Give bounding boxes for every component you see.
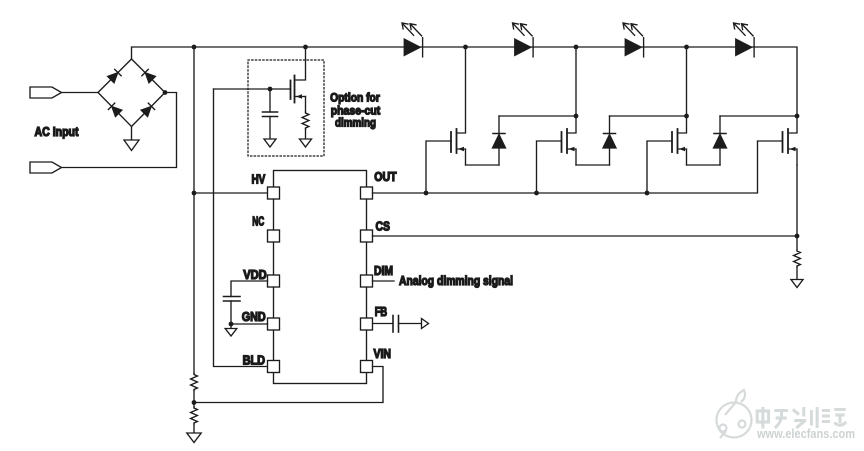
wire: phase-cut FET source bbox=[305, 97, 307, 113]
wire: M1 gate branch bbox=[426, 141, 451, 193]
AC input terminal (neutral) bbox=[30, 162, 62, 173]
resistor: current sense bbox=[794, 250, 801, 267]
watermark: elecfans logo bbox=[717, 390, 752, 438]
ground: bridge negative bbox=[124, 127, 139, 151]
LED LED4 bbox=[734, 23, 755, 57]
wire: resistor to ground bbox=[305, 129, 307, 139]
bridge diode top-left bbox=[108, 69, 121, 82]
LED LED3 bbox=[623, 23, 644, 57]
watermark: chinese characters bbox=[757, 407, 846, 429]
svg-text:CS: CS bbox=[376, 220, 391, 234]
junction: diode 1 / M2 drain bbox=[574, 114, 579, 119]
capacitor: VDD decoupling bbox=[224, 297, 241, 325]
pin BLD bbox=[268, 361, 280, 373]
wire: phase-cut gate lead bbox=[214, 88, 291, 90]
wire: rail to phase-cut FET drain bbox=[295, 47, 306, 80]
wire: rectified DC top rail bbox=[132, 47, 798, 116]
junction: VDD cap / GND node bbox=[229, 322, 234, 327]
junction: rail / phase-cut FET drain bbox=[303, 45, 308, 50]
svg-text:www.elecfans.com: www.elecfans.com bbox=[756, 426, 855, 441]
dotted box: phase-cut dimming option bbox=[248, 60, 324, 156]
IC body bbox=[274, 171, 367, 384]
AC input terminal (line) bbox=[30, 87, 62, 98]
junction: rail / M2 drain bbox=[574, 45, 579, 50]
wire: HV node to HV pin bbox=[194, 192, 268, 194]
wire: OUT gate bus bbox=[373, 141, 783, 193]
wire: HV branch vertical bbox=[193, 47, 195, 374]
label: Option for phase-cut dimming bbox=[330, 91, 380, 130]
pin CS bbox=[361, 230, 373, 242]
junction: rail / M1 drain bbox=[463, 45, 468, 50]
pin VDD bbox=[268, 275, 280, 287]
junction: bridge right vertex bbox=[163, 90, 168, 95]
pin FB bbox=[361, 318, 373, 330]
wire: neutral terminal to bridge right vertex bbox=[62, 93, 177, 168]
transistor M2 (bypass FET 2) bbox=[562, 47, 577, 165]
ground: current sense bbox=[791, 280, 803, 288]
junction: diode 3 / M4 drain / LED4 cathode bbox=[795, 114, 800, 119]
junction: OUT bus / M2 gate bbox=[534, 191, 539, 196]
arrow: FB signal marker bbox=[422, 319, 429, 329]
bridge diode bottom-right bbox=[141, 103, 154, 116]
wire: DIM pin stub bbox=[373, 280, 395, 282]
diode: bypass diode 3 bbox=[714, 116, 727, 165]
capacitor: phase-cut gate filter bbox=[263, 89, 278, 139]
resistor: bleeder upper bbox=[191, 374, 198, 391]
junction: rail / HV branch bbox=[192, 45, 197, 50]
junction: HV node bbox=[192, 191, 197, 196]
junction: diode 2 / M3 drain bbox=[684, 114, 689, 119]
wire: M4 source to CS node bbox=[796, 165, 798, 236]
svg-text:AC Input: AC Input bbox=[35, 125, 80, 139]
wire: CS node to sense resistor bbox=[796, 236, 798, 250]
junction: CS bus / M4 source / sense resistor bbox=[795, 234, 800, 239]
svg-text:HV: HV bbox=[252, 173, 266, 187]
svg-text:DIM: DIM bbox=[374, 264, 393, 278]
wire: diode 3 cathode to M4 drain node bbox=[720, 115, 797, 117]
ground: bleeder bbox=[187, 424, 201, 443]
svg-text:OUT: OUT bbox=[374, 170, 397, 184]
wire: BLD branch vertical bbox=[214, 89, 268, 367]
svg-text:Option for: Option for bbox=[330, 91, 380, 105]
wire: sense resistor to ground bbox=[796, 267, 798, 280]
wire: M3 source to bypass diode 3 bbox=[687, 164, 721, 166]
wire: VDD pin to decoupling cap bbox=[231, 281, 268, 297]
wire: bleeder mid bbox=[193, 391, 195, 408]
ground: GND pin bbox=[225, 324, 237, 336]
pin OUT bbox=[361, 187, 373, 199]
junction: OUT bus / M1 gate bbox=[424, 191, 429, 196]
bridge rectifier frame bbox=[98, 59, 165, 127]
pin HV bbox=[268, 187, 280, 199]
wire: diode 1 cathode to M2 drain bbox=[499, 115, 576, 117]
junction: OUT bus / M3 gate bbox=[645, 191, 650, 196]
transistor: phase-cut dimmer FET bbox=[291, 76, 306, 103]
svg-text:BLD: BLD bbox=[243, 354, 266, 368]
svg-text:GND: GND bbox=[242, 310, 266, 324]
wire: GND pin lead bbox=[231, 323, 268, 325]
svg-text:VDD: VDD bbox=[243, 268, 267, 282]
transistor M4 (linear regulator FET) bbox=[783, 116, 798, 165]
wire: M1 source to bypass diode 1 bbox=[466, 164, 500, 166]
pin VIN bbox=[361, 361, 373, 373]
transistor M1 (bypass FET 1) bbox=[451, 47, 466, 165]
resistor: phase-cut source bbox=[302, 112, 309, 129]
svg-text:NC: NC bbox=[252, 215, 264, 229]
wire: M2 gate branch bbox=[537, 141, 562, 193]
junction: rail / M3 drain bbox=[684, 45, 689, 50]
bridge diode top-right bbox=[142, 69, 155, 82]
pin NC bbox=[268, 230, 280, 242]
svg-text:VIN: VIN bbox=[374, 347, 392, 361]
LED LED1 bbox=[402, 23, 423, 57]
svg-text:FB: FB bbox=[375, 305, 388, 319]
wire: VIN return path bbox=[194, 367, 383, 403]
diode: bypass diode 2 bbox=[603, 116, 616, 165]
wire: FB pin to capacitor bbox=[373, 323, 394, 325]
wire: M2 source to bypass diode 2 bbox=[576, 164, 610, 166]
junction: gate / capacitor node bbox=[268, 87, 273, 92]
wire: line terminal to bridge left vertex bbox=[62, 92, 99, 94]
svg-text:Analog dimming signal: Analog dimming signal bbox=[399, 274, 513, 288]
pin DIM bbox=[361, 275, 373, 287]
bridge diode bottom-left bbox=[108, 103, 121, 116]
ground: phase-cut capacitor bbox=[264, 139, 276, 147]
wire: CS bus bbox=[373, 235, 798, 237]
ground: phase-cut resistor bbox=[300, 139, 312, 147]
pin GND bbox=[268, 318, 280, 330]
transistor M3 (bypass FET 3) bbox=[672, 47, 687, 165]
wire: M3 gate branch bbox=[647, 141, 672, 193]
resistor: bleeder lower bbox=[191, 407, 198, 424]
wire: diode 2 cathode to M3 drain bbox=[610, 115, 687, 117]
diode: bypass diode 1 bbox=[493, 116, 506, 165]
capacitor: FB compensation bbox=[393, 316, 421, 333]
junction: VIN return node bbox=[192, 400, 197, 405]
LED LED2 bbox=[513, 23, 534, 57]
svg-text:dimming: dimming bbox=[335, 116, 376, 130]
